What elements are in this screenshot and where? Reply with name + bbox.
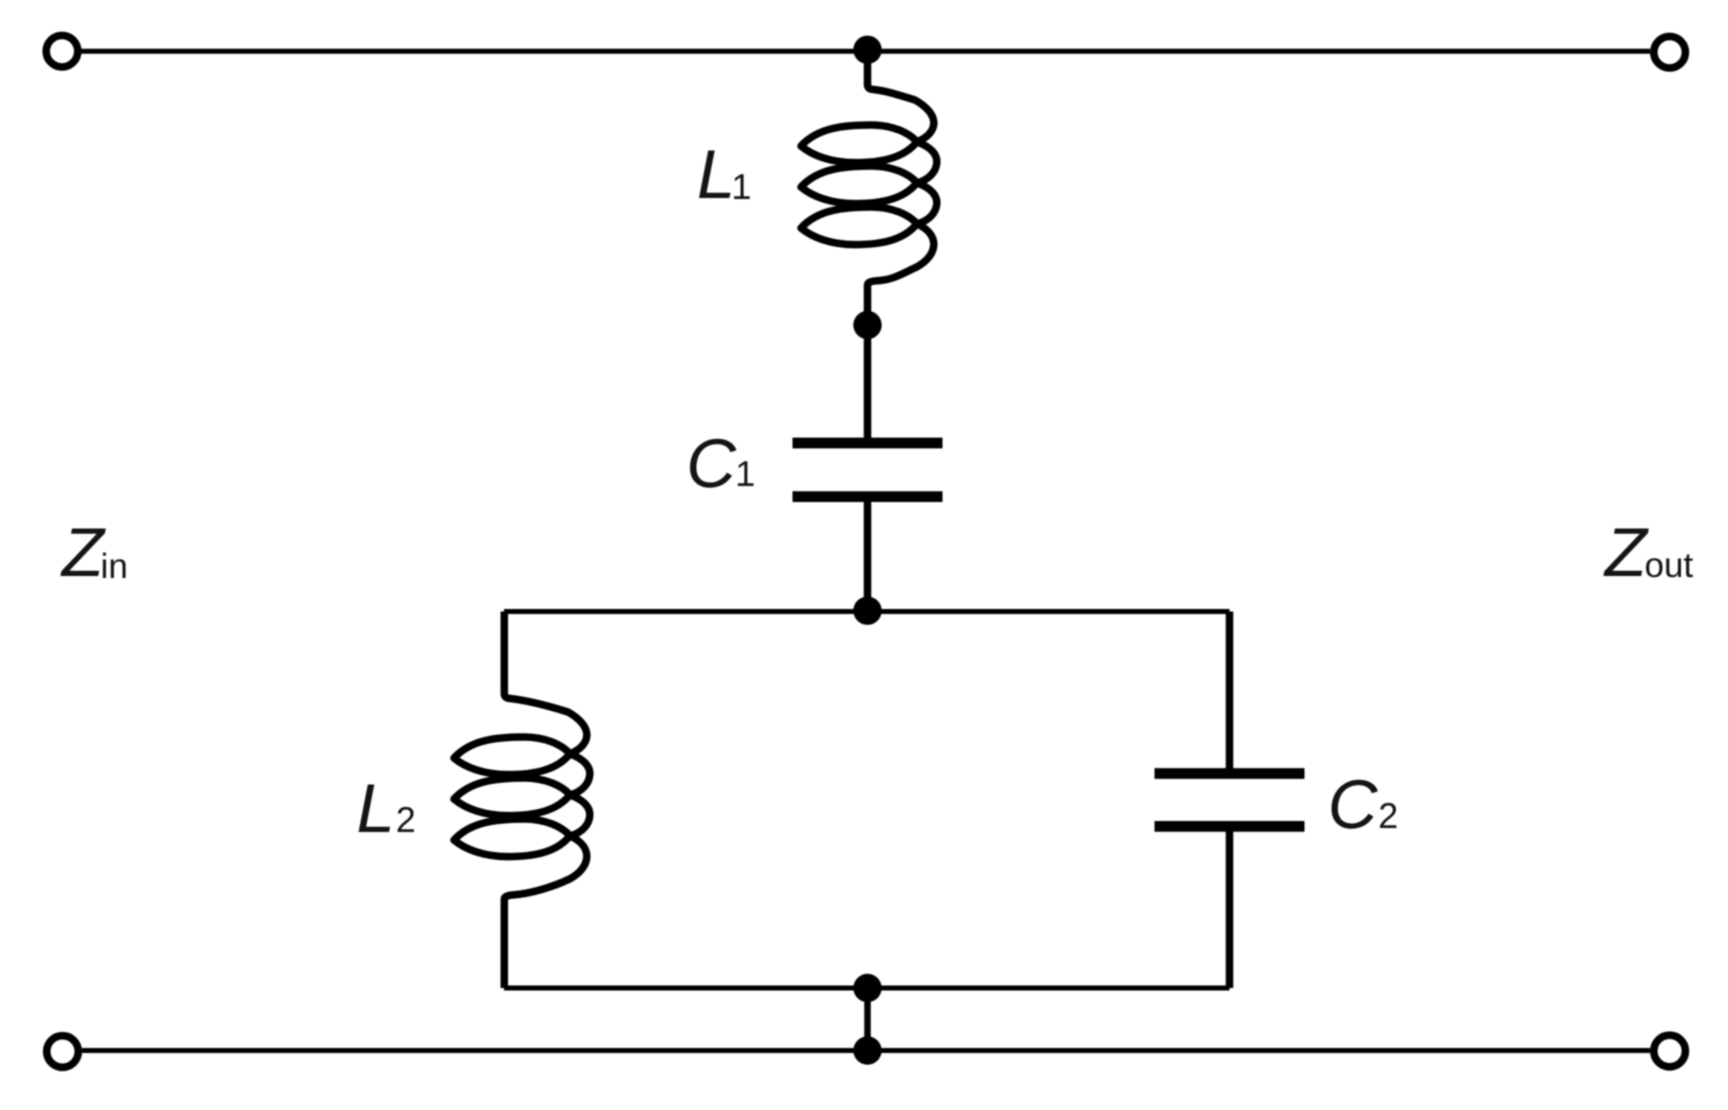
wire tank top (504, 609, 1230, 614)
label L1 subscript 1 (734, 174, 750, 199)
capacitor C2 (1155, 612, 1305, 989)
label Zout subscript out (1646, 554, 1693, 577)
label Zout (1603, 529, 1648, 577)
inductor L2 (454, 612, 590, 989)
coil turn 2 (801, 166, 917, 204)
coil turn link 1 (917, 142, 937, 183)
capacitor lower plate (793, 491, 943, 502)
coil turn 3 (454, 819, 570, 857)
output terminal top-right (1654, 36, 1686, 68)
wire top lead into coil (504, 612, 587, 754)
node junction between L1 and C1 (853, 311, 881, 339)
label Zin (60, 529, 105, 577)
wire upper capacitor lead (1226, 612, 1234, 774)
bottom rail wire (82, 1048, 1650, 1053)
coil turn link 2 (570, 795, 590, 836)
wire top lead into coil (868, 51, 934, 142)
coil turn link 2 (917, 183, 937, 224)
node junction C1 to tank top (853, 597, 881, 625)
capacitor upper plate (793, 438, 943, 449)
input terminal bottom-left (47, 1036, 79, 1068)
coil turn 1 (454, 737, 570, 775)
wire tank bottom (504, 986, 1230, 991)
wire bottom lead out of coil (504, 836, 587, 988)
output terminal bottom-right (1654, 1035, 1686, 1067)
coil turn 2 (454, 778, 570, 816)
input terminal top-left (46, 35, 78, 67)
coil turn link 1 (570, 754, 590, 795)
label L2 (359, 785, 391, 833)
label C1 subscript 1 (738, 461, 754, 486)
coil turn 1 (801, 125, 917, 163)
node junction on top rail (853, 36, 881, 64)
capacitor lower plate (1155, 821, 1305, 832)
wire lower capacitor lead (864, 497, 872, 612)
wire lower capacitor lead (1226, 826, 1234, 988)
label C2 subscript 2 (1380, 803, 1396, 828)
node junction on bottom rail (853, 1036, 881, 1064)
wire tank to bottom rail (864, 988, 871, 1051)
wire upper capacitor lead (864, 325, 872, 443)
label C2 (1332, 780, 1378, 829)
capacitor C1 (793, 325, 943, 612)
capacitor upper plate (1155, 768, 1305, 779)
coil turn 3 (801, 207, 917, 245)
inductor L1 (801, 51, 937, 322)
node junction tank bottom (853, 974, 881, 1002)
label Zin subscript in (103, 553, 126, 578)
wire bottom lead out of coil (868, 224, 934, 322)
label C1 (690, 439, 736, 488)
top rail wire (82, 49, 1651, 54)
label L2 subscript 2 (398, 807, 414, 832)
label L1 (699, 151, 731, 199)
